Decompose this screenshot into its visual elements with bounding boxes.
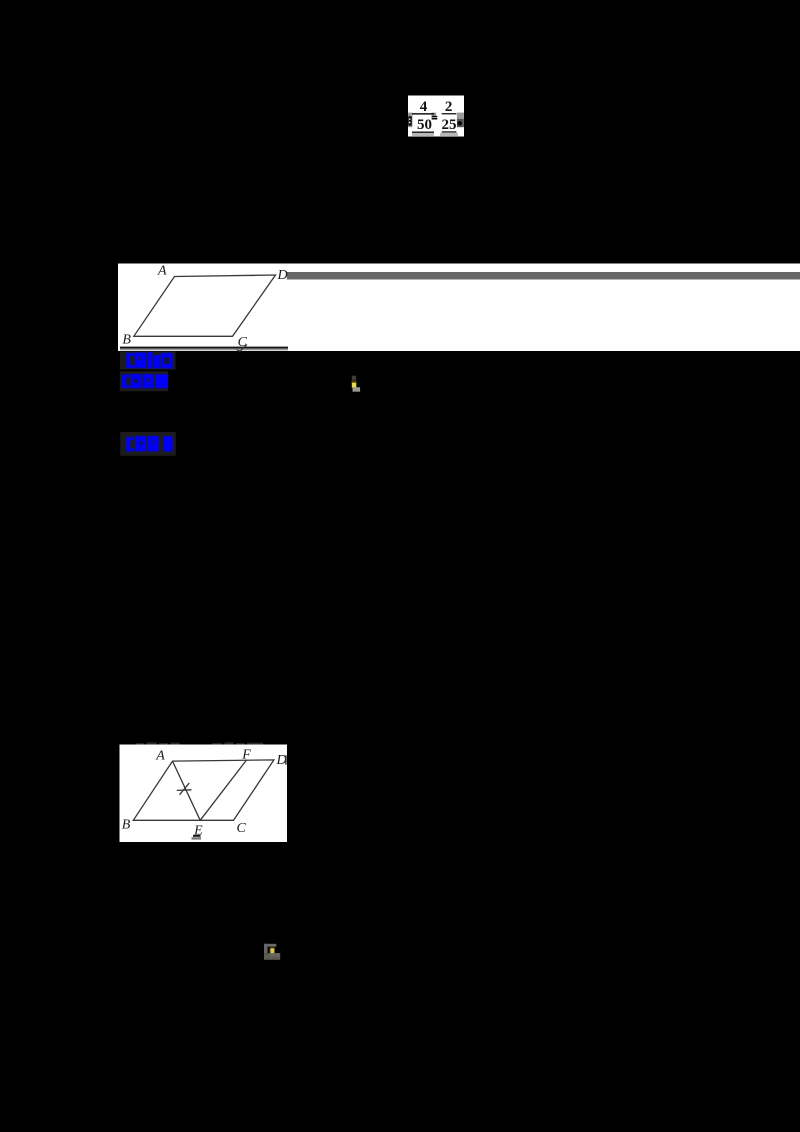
underline below diagram 1 (120, 347, 288, 349)
gray bar right of D (287, 272, 800, 280)
fraction bar 2 (442, 113, 457, 114)
svg-text:B: B (122, 817, 131, 832)
blue label 2 (122, 374, 168, 388)
svg-text:50: 50 (417, 117, 432, 133)
small icon 1 (yellow/gray) (352, 376, 356, 381)
cevian A to E (173, 761, 201, 820)
fraction equation white box (408, 96, 464, 137)
cevian E to F (200, 760, 246, 820)
cut-off text fragments above diagram 2 (136, 742, 263, 746)
gray artifact patch middle (432, 113, 437, 117)
svg-text:25: 25 (442, 117, 457, 133)
parallelogram ABCD (2) (133, 760, 274, 820)
parallelogram ABCD (134, 275, 276, 336)
gray underline echo (120, 349, 288, 351)
blue label 3 (126, 436, 172, 451)
black glyph fragment at left edge (408, 116, 411, 125)
small dark mark near C (237, 345, 248, 352)
svg-text:D: D (276, 753, 287, 768)
vertical bar right of D (285, 755, 287, 765)
dark box behind blue label 3 (120, 432, 176, 456)
dark box behind blue label 1 (120, 352, 176, 370)
equals sign (432, 116, 438, 118)
white band for diagram 1 (118, 264, 800, 352)
svg-text:C: C (237, 821, 247, 836)
tick mark on AE (177, 789, 192, 792)
svg-text:F: F (241, 747, 251, 762)
blue label 1 (126, 352, 173, 368)
svg-text:4: 4 (420, 99, 428, 115)
underline bar 1 (412, 132, 434, 133)
svg-text:B: B (122, 332, 131, 347)
dark box behind blue label 2 (120, 371, 168, 391)
svg-text:A: A (155, 748, 165, 763)
black dot after 25 (457, 121, 462, 126)
small icon 2 (gray/yellow) (264, 944, 276, 947)
svg-text:2: 2 (445, 99, 453, 115)
svg-text:A: A (157, 264, 167, 279)
gray artifact patch left (408, 113, 413, 128)
underline bar 2 (442, 131, 457, 132)
white box for diagram 2 (120, 745, 288, 843)
gray artifact strip bottom left (412, 133, 434, 137)
gray artifact strip bottom right (440, 133, 458, 137)
gray artifact patch right dark (457, 119, 464, 128)
fraction bar 1 (412, 113, 434, 115)
underline below E (193, 835, 201, 837)
svg-text:D: D (277, 268, 288, 283)
gray artifact patch right top (457, 113, 464, 119)
